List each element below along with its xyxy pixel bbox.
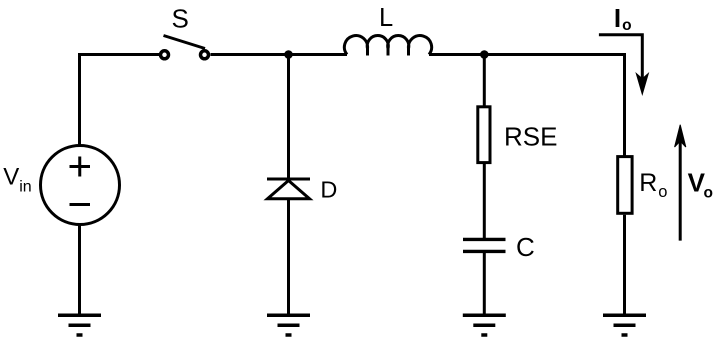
svg-text:Vin: Vin	[3, 164, 31, 196]
svg-text:Ro: Ro	[639, 169, 667, 201]
svg-text:S: S	[172, 4, 189, 34]
svg-text:Vo: Vo	[688, 168, 713, 202]
svg-text:C: C	[516, 232, 535, 262]
svg-text:L: L	[379, 4, 393, 32]
svg-text:RSE: RSE	[504, 122, 557, 152]
svg-text:D: D	[320, 177, 337, 203]
svg-text:Io: Io	[614, 3, 632, 34]
